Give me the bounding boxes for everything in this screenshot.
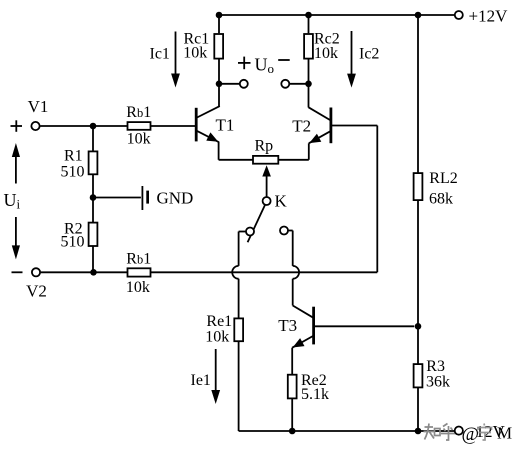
wire R2 to V2 wire xyxy=(92,246,94,272)
wire Re1 to bottom rail xyxy=(238,341,240,431)
current arrow Ic2 xyxy=(351,31,353,75)
wire Rp right to T2 emitter xyxy=(278,159,309,161)
node top rail / Rc2 xyxy=(305,12,312,19)
svg-text:Uo: Uo xyxy=(255,54,275,76)
wire RL2 column from top rail xyxy=(417,15,419,173)
svg-text:Rp: Rp xyxy=(255,138,274,155)
switch K lever xyxy=(248,205,265,242)
wire T3 emitter down xyxy=(291,348,293,375)
svg-text:510: 510 xyxy=(61,164,85,181)
wire bottom -12V rail xyxy=(239,430,455,432)
resistor R1 xyxy=(92,126,94,151)
label Uo plus sign xyxy=(238,62,251,64)
svg-text:T1: T1 xyxy=(216,116,235,135)
svg-text:510: 510 xyxy=(61,233,85,250)
svg-text:10k: 10k xyxy=(127,130,151,147)
watermark zhihu char 1 xyxy=(424,424,441,440)
svg-text:Rb1: Rb1 xyxy=(126,251,151,268)
resistor Rb1 (upper) xyxy=(128,122,151,130)
svg-text:RL2: RL2 xyxy=(429,170,457,187)
svg-text:T2: T2 xyxy=(292,116,311,135)
terminal V1 xyxy=(31,122,39,130)
ground GND symbol xyxy=(141,186,143,210)
wire V1 to Rb1 xyxy=(40,125,127,127)
wire T1 emitter to Rp xyxy=(219,159,253,161)
transistor T3 xyxy=(293,306,314,318)
wire R3 to bottom rail xyxy=(417,387,419,431)
wire V2 to Rb1 lower xyxy=(41,271,128,273)
resistor Re2 xyxy=(288,375,297,399)
wire R1 to R2 xyxy=(92,174,94,222)
svg-text:K: K xyxy=(275,192,288,211)
node bottom rail / R3 xyxy=(415,428,422,435)
node top rail / Rc1 xyxy=(216,12,223,19)
current arrow Ic1 xyxy=(175,32,177,76)
terminal +12V xyxy=(455,11,463,19)
wire Rb1 to T1 base xyxy=(151,125,196,127)
terminal -12V xyxy=(455,427,463,435)
node T3 base / divider xyxy=(415,323,422,330)
svg-text:Rb1: Rb1 xyxy=(126,104,151,121)
node Rc1 / Uo+ xyxy=(216,81,223,88)
node Rc2 / Uo- xyxy=(305,81,312,88)
resistor R2 xyxy=(89,223,98,246)
terminal Uo+ xyxy=(240,80,248,88)
arrow Ui down xyxy=(15,217,17,247)
svg-text:R1: R1 xyxy=(64,147,83,164)
wire Rb1 lower to T2 base column xyxy=(151,271,378,273)
wire Rc2 bottom to T2 collector node xyxy=(308,58,310,107)
wire right contact to T3 column xyxy=(288,230,292,232)
label Uo minus sign xyxy=(278,59,290,61)
transistor T2 xyxy=(329,108,332,144)
svg-text:Ic2: Ic2 xyxy=(359,46,379,63)
node V2 / R2 xyxy=(90,269,97,276)
resistor Rb1 (lower) xyxy=(128,268,151,276)
svg-text:10k: 10k xyxy=(183,45,207,62)
resistor Rc2 xyxy=(304,34,313,59)
wire top +12V rail xyxy=(219,14,454,16)
watermark zhihu char 2 xyxy=(441,424,456,441)
svg-text:36k: 36k xyxy=(426,374,450,391)
svg-text:T3: T3 xyxy=(278,316,297,335)
resistor Rc1 xyxy=(214,34,223,59)
terminal Uo- xyxy=(281,80,289,88)
terminal V2 xyxy=(32,268,40,276)
wire to ground xyxy=(93,197,141,199)
svg-text:+12V: +12V xyxy=(469,6,509,25)
svg-text:Ui: Ui xyxy=(4,190,21,212)
node GND junction xyxy=(90,194,97,201)
svg-text:GND: GND xyxy=(157,189,194,208)
resistor RL2 xyxy=(414,173,423,200)
wire T3 base to divider node xyxy=(315,325,414,327)
label - input xyxy=(12,271,23,273)
svg-text:68k: 68k xyxy=(429,190,453,207)
wire T2 base column down xyxy=(376,126,378,273)
wire hop right over input wire xyxy=(293,266,299,279)
wire Uo+ stub xyxy=(219,83,240,85)
svg-text:Re1: Re1 xyxy=(206,313,232,330)
node bottom rail / Re2 xyxy=(289,428,296,435)
wire Rc2 top lead xyxy=(308,15,310,33)
wire Rc1 bottom to T1 collector node xyxy=(218,58,220,106)
transistor T1 xyxy=(195,108,198,142)
wire left contact to Re1 column xyxy=(239,231,246,233)
potentiometer Rp xyxy=(253,156,278,164)
node top rail / RL2 xyxy=(415,12,422,19)
wire Rc1 top lead xyxy=(218,15,220,33)
wire T2 base right xyxy=(332,125,377,127)
svg-text:M: M xyxy=(497,424,512,443)
wiper arrow of Rp xyxy=(262,165,271,176)
svg-text:Ie1: Ie1 xyxy=(191,372,211,389)
wire Re2 to bottom rail xyxy=(291,398,293,431)
resistor R3 xyxy=(414,364,423,387)
svg-text:V2: V2 xyxy=(26,282,47,301)
label + input xyxy=(11,125,23,127)
watermark char over label xyxy=(478,424,492,441)
switch K right contact xyxy=(280,227,288,235)
svg-text:Ic1: Ic1 xyxy=(150,45,170,62)
wire Uo- stub xyxy=(290,83,309,85)
arrow Ui up xyxy=(15,155,17,184)
wire RL2 to divider node xyxy=(417,200,419,364)
svg-text:V1: V1 xyxy=(28,97,49,116)
svg-text:10k: 10k xyxy=(314,45,338,62)
current arrow Ie1 xyxy=(215,349,217,391)
wire hop left over input wire xyxy=(232,266,238,279)
node V1 / R1 xyxy=(90,123,97,130)
wire T1 emitter down xyxy=(218,142,220,160)
switch K left contact xyxy=(246,228,254,236)
switch K wiper terminal xyxy=(263,197,271,205)
resistor Re1 xyxy=(234,318,243,341)
svg-text:10k: 10k xyxy=(205,329,229,346)
svg-text:10k: 10k xyxy=(126,279,150,296)
svg-text:5.1k: 5.1k xyxy=(301,386,329,403)
